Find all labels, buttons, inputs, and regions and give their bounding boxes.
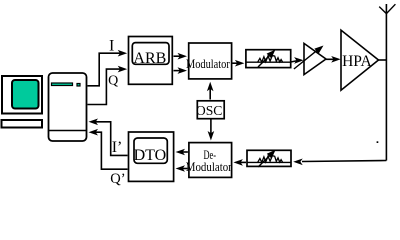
svg-text:Q: Q: [108, 73, 118, 88]
svg-text:OSC: OSC: [196, 104, 223, 119]
svg-text:HPA: HPA: [342, 53, 372, 70]
svg-text:Modulator: Modulator: [186, 56, 230, 71]
svg-text:DTO: DTO: [134, 147, 167, 164]
svg-text:Q’: Q’: [110, 171, 125, 187]
svg-text:I’: I’: [112, 139, 123, 156]
svg-text:I: I: [109, 38, 114, 55]
svg-text:ARB: ARB: [133, 50, 166, 67]
svg-text:Modulator: Modulator: [186, 159, 233, 174]
